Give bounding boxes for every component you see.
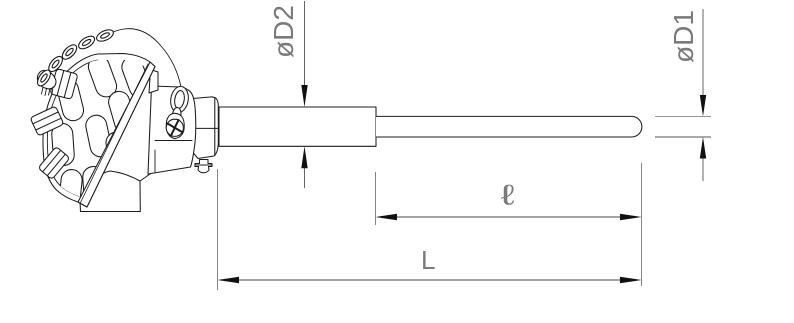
thin tube (D1 section) with rounded tip	[376, 116, 642, 137]
svg-text:L: L	[421, 245, 435, 275]
arrow oD2 bottom	[301, 146, 307, 168]
arrow oD2 top	[301, 85, 307, 107]
arrow oD1 bottom	[700, 137, 706, 159]
L dimension line	[220, 279, 639, 281]
arrowheads	[218, 85, 707, 283]
eyelet ring on body	[169, 85, 190, 114]
chain links	[35, 27, 115, 88]
arrow l right	[620, 214, 642, 220]
svg-text:øD2: øD2	[268, 5, 299, 58]
pendant link under eyelet	[172, 107, 182, 122]
dimension graphics	[218, 1, 712, 290]
head body (cylindrical right part)	[148, 86, 196, 174]
svg-text:ℓ: ℓ	[501, 179, 515, 211]
arrow L right	[620, 277, 642, 283]
side boss 2 on lid rim	[30, 106, 64, 136]
side boss 3 on lid rim	[38, 146, 70, 179]
cover lid (ribbed dome), tilted	[43, 54, 155, 208]
arrow l left	[376, 214, 398, 220]
l dimension line	[378, 216, 639, 218]
lug on body top	[149, 70, 158, 94]
nipple below hex	[195, 160, 212, 173]
thick tube (D2 section)	[219, 107, 376, 146]
neck (bottom spigot of head)	[80, 171, 150, 212]
svg-text:øD1: øD1	[668, 10, 699, 63]
lid inner rim line	[47, 60, 98, 196]
chain cable arc to eyelet	[113, 29, 181, 87]
cap on chain (screw plug)	[37, 70, 56, 95]
screw pendant (teardrop with phillips screw)	[166, 113, 184, 138]
dimension oD1 leader lines	[655, 9, 711, 181]
hex nut	[193, 97, 219, 159]
extension line at step (l left)	[375, 172, 377, 225]
dimension oD2 leader lines	[304, 1, 306, 188]
arrow L left	[218, 277, 240, 283]
lid ribs (grip flutes)	[51, 53, 153, 212]
side boss 1 on lid rim	[50, 69, 78, 100]
extension line at tip (right)	[641, 163, 643, 286]
extension line at probe root (L left)	[217, 169, 219, 290]
arrow oD1 top	[700, 95, 706, 116]
lid band (side of cover)	[78, 62, 155, 207]
